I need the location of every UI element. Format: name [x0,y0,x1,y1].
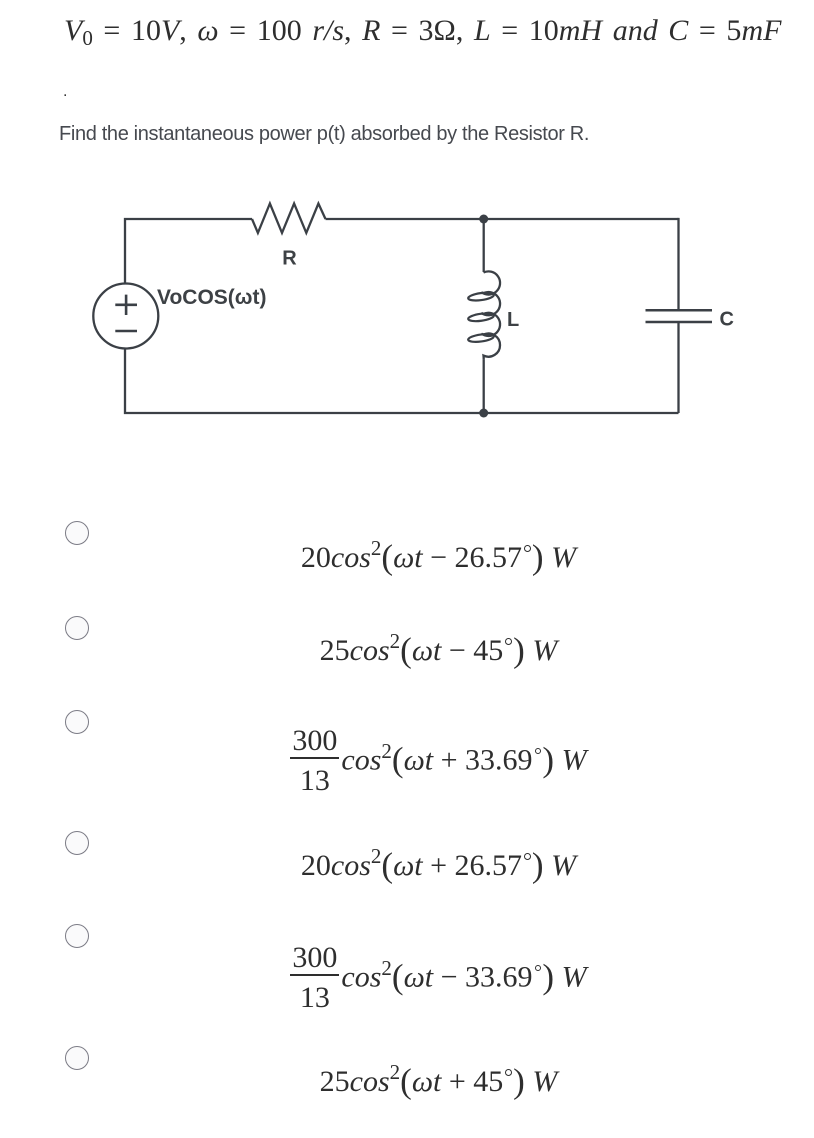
option 1 text [63,541,814,575]
option 5 radio [65,924,89,948]
question text [59,123,589,146]
header formula [64,14,781,48]
option 2 text [63,634,814,668]
wire: inductor branch bottom [483,359,485,413]
option 4 radio [65,831,89,855]
wire: inductor branch top [483,219,485,272]
option 3 radio [65,710,89,734]
wire: resistor to top-right corner [326,218,679,220]
inductor L coil [481,271,500,359]
option 1 radio [65,521,89,545]
voltage source + symbol [115,295,137,315]
wire: bottom segment [125,350,679,414]
svg-text:VoCOS(ωt): VoCOS(ωt) [157,286,267,309]
resistor R zigzag [252,204,326,233]
svg-text:L: L [507,309,519,331]
wire: left/top segment from source to resistor [125,219,252,283]
option 3 text [63,726,814,796]
option 6 radio [65,1046,89,1070]
stray period [63,83,67,101]
node dot bottom [479,409,488,418]
svg-text:R: R [282,248,297,270]
node dot top [479,215,488,224]
option 4 text [63,849,814,883]
svg-text:C: C [720,309,734,331]
wire: right branch below capacitor [677,322,679,413]
option 5 text [63,943,814,1013]
option 2 radio [65,616,89,640]
voltage source - symbol [115,330,137,333]
circuit schematic SVG placeholder [0,0,814,470]
capacitor C plates [646,310,713,322]
voltage source circle [93,284,158,349]
wire: right branch above capacitor [677,218,679,310]
option 6 text [63,1065,814,1099]
